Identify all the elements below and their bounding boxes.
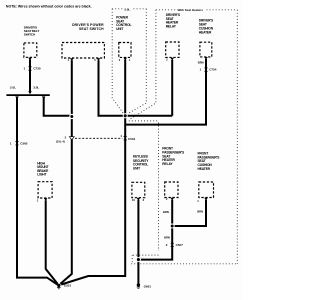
terminal: left branch at bar xyxy=(15,96,19,99)
svg-text:UNIT: UNIT xyxy=(133,167,140,171)
region 3.0L dotted boundary xyxy=(112,7,146,114)
wire: driver's seat heater relay to bus xyxy=(171,60,173,116)
region With Seat Heaters dotted boundary xyxy=(129,8,238,264)
svg-text:C730: C730 xyxy=(33,67,41,71)
connector C730 xyxy=(24,67,41,71)
svg-text:SEAT SWITCH: SEAT SWITCH xyxy=(79,27,104,31)
svg-text:LIGHT: LIGHT xyxy=(37,173,46,177)
wire: driver's seat cushion heater to lower bus xyxy=(126,59,206,125)
svg-text:G551: G551 xyxy=(64,284,72,288)
component box: driver's seat heater relay xyxy=(166,13,181,57)
component box: front passenger's seat heater relay xyxy=(162,147,185,198)
svg-text:BRN: BRN xyxy=(198,61,204,65)
wire: seat belt switch to splice bar xyxy=(29,60,31,92)
pin 2 front passenger's seat heater relay xyxy=(166,197,174,201)
junction A xyxy=(69,114,74,119)
pin 5 driver's power seat switch xyxy=(94,58,100,62)
wire: keyless unit to ground G601 xyxy=(137,200,139,284)
svg-text:SWITCH: SWITCH xyxy=(24,33,36,37)
component box: high mount brake light xyxy=(37,161,52,200)
svg-text:UNIT: UNIT xyxy=(116,27,123,31)
splice bar xyxy=(6,94,49,96)
wire: bus junction B to driver's seat heater relay xyxy=(125,115,172,117)
svg-text:RELAY: RELAY xyxy=(162,162,173,166)
connector C565 xyxy=(10,141,28,145)
wire: passenger cushion heater to junction D xyxy=(173,200,206,226)
svg-text:10: 10 xyxy=(132,198,135,202)
component box: driver's seat cushion heater xyxy=(199,19,214,60)
svg-text:3.0L: 3.0L xyxy=(124,7,130,11)
svg-text:HEATER: HEATER xyxy=(199,30,212,34)
connector C507 xyxy=(166,243,183,247)
wire: left branch (2.0L) down to ground xyxy=(17,97,57,285)
junction C xyxy=(136,257,141,262)
svg-text:C734: C734 xyxy=(209,68,217,72)
arrow terminal at splice bar xyxy=(28,91,32,94)
wire: control unit down through junction B, C504, to left ground xyxy=(61,60,125,285)
wire: right branch (3.0L) to junction A xyxy=(44,97,71,116)
svg-text:C565: C565 xyxy=(20,141,28,145)
component box: front passenger's seat cushion heater xyxy=(198,152,221,201)
connector C504 pin 2 marker xyxy=(56,135,74,143)
svg-text:3.0L: 3.0L xyxy=(33,85,39,89)
svg-text:HEATER: HEATER xyxy=(198,167,211,171)
pin 2 driver's seat heater relay xyxy=(166,58,174,62)
terminal: right branch at bar xyxy=(42,96,46,99)
svg-text:RELAY: RELAY xyxy=(166,24,177,28)
pin 1 driver's power seat switch xyxy=(68,58,74,62)
svg-text:C507: C507 xyxy=(176,243,184,247)
svg-text:2.0L: 2.0L xyxy=(10,85,16,89)
ground G551 xyxy=(57,284,71,289)
svg-text:With Seat Heaters: With Seat Heaters xyxy=(178,8,204,12)
svg-text:BRN: BRN xyxy=(163,210,169,214)
junction D xyxy=(170,224,175,229)
component box: driver's power seat switch xyxy=(62,23,104,58)
svg-text:G601: G601 xyxy=(144,284,152,288)
svg-text:BRN: BRN xyxy=(197,210,203,214)
svg-text:NOTE: Wires shown without colo: NOTE: Wires shown without color codes ar… xyxy=(6,4,92,8)
component box: driver's seat belt switch xyxy=(24,25,40,60)
wire: high mount brake light to ground xyxy=(46,200,58,284)
component box: keyless security control unit xyxy=(132,155,149,201)
wire: power seat switch pin 1 down through junction A to ground xyxy=(60,60,72,284)
junction B xyxy=(123,113,128,118)
ground G601 xyxy=(137,283,152,288)
dashed connector link line C504 xyxy=(75,137,122,139)
svg-text:BRN: BRN xyxy=(164,235,170,239)
wire: passenger relay down to junction C xyxy=(139,200,172,260)
wire: power seat switch pin 5 to junction B xyxy=(99,60,125,116)
svg-text:C504: C504 xyxy=(128,137,136,141)
svg-text:(10L-4): (10L-4) xyxy=(56,139,65,143)
connector C504 xyxy=(120,134,135,141)
component box: power seat control unit xyxy=(116,16,131,61)
connector C734 xyxy=(200,68,217,72)
